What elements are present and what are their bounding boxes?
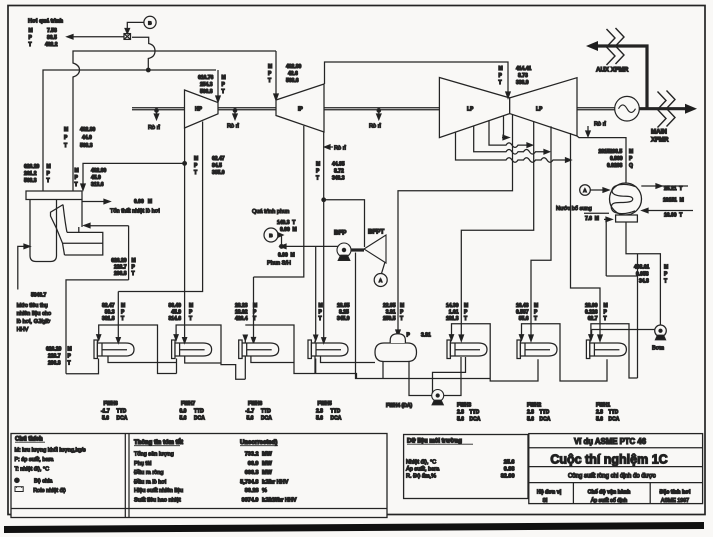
LP exhaust to condenser: [577, 136, 626, 183]
leak Ro ri IP gland: [330, 146, 333, 148]
svg-text:T: T: [194, 170, 197, 176]
svg-text:T: T: [75, 182, 78, 188]
BFP-BFPT shaft: [351, 248, 364, 251]
svg-text:Rò rỉ: Rò rỉ: [334, 145, 347, 152]
node main steam tap: [147, 68, 151, 72]
svg-text:T: T: [64, 143, 67, 149]
svg-text:T: T: [189, 316, 192, 322]
FWH7 shell: [172, 335, 212, 359]
svg-text:M: M: [319, 303, 323, 309]
svg-text:T: T: [47, 178, 50, 184]
FWH3 feed loop: [452, 324, 539, 381]
svg-text:Áp suất cố định: Áp suất cố định: [591, 497, 628, 504]
svg-text:P: P: [268, 71, 272, 77]
boiler downcomer strip: [51, 205, 65, 255]
svg-text:kJ/hr HHV: kJ/hr HHV: [262, 479, 289, 485]
svg-text:ASME 1997: ASME 1997: [661, 498, 689, 504]
svg-text:P: P: [407, 333, 411, 339]
svg-text:T: T: [319, 316, 322, 322]
svg-text:Chú thích: Chú thích: [15, 437, 43, 443]
svg-text:44.95: 44.95: [332, 162, 345, 168]
leak Ro ri HP shaft: [233, 109, 236, 112]
merged extraction to FWH2: [531, 126, 551, 335]
FWH7 drain line: [185, 356, 221, 363]
svg-text:M: M: [121, 303, 125, 309]
BFPT steam supply: [324, 200, 365, 247]
power bus thick lines: [597, 46, 686, 109]
svg-text:25.21 T: 25.21 T: [664, 186, 682, 192]
svg-text:P: P: [464, 310, 468, 316]
svg-text:22.95: 22.95: [383, 303, 396, 309]
svg-text:44.0: 44.0: [82, 135, 92, 141]
svg-text:1.61: 1.61: [449, 310, 459, 316]
node spray tee: [280, 245, 284, 249]
svg-text:8.73: 8.73: [518, 73, 528, 79]
boiler furnace column: [30, 200, 57, 262]
svg-text:T: T: [68, 361, 71, 367]
svg-text:568.6: 568.6: [286, 78, 299, 84]
IP exhaust drop to FWH5: [323, 132, 325, 337]
booster pump outlet: [444, 357, 461, 396]
node BFPT steam tee: [322, 198, 326, 202]
svg-text:Mức tiêu thụ: Mức tiêu thụ: [17, 303, 48, 309]
svg-text:R. Độ ẩm,%: R. Độ ẩm,%: [406, 473, 436, 480]
boiler economizer inner line: [63, 242, 103, 244]
instrument circle B: [144, 16, 156, 28]
boiler flue duct right wall: [81, 200, 83, 228]
svg-text:M: lưu lượng khối lượng,kg/s: M: lưu lượng khối lượng,kg/s: [15, 448, 86, 454]
svg-text:5.6: 5.6: [596, 417, 603, 423]
svg-text:nhiên liệu cho: nhiên liệu cho: [17, 311, 52, 317]
svg-text:BFPT: BFPT: [368, 229, 384, 236]
IP-LP crossover line: [325, 62, 509, 92]
main steam riser: [43, 70, 216, 191]
svg-text:Rò rỉ: Rò rỉ: [369, 123, 382, 130]
svg-text:5.6: 5.6: [316, 416, 323, 422]
svg-text:P: P: [604, 310, 608, 316]
svg-text:P: P: [64, 135, 68, 141]
hot reheat riser with hop: [73, 51, 276, 191]
FWH2 shell: [517, 335, 557, 359]
svg-text:P: áp suất, bara: P: áp suất, bara: [15, 457, 55, 463]
svg-text:Rò rỉ: Rò rỉ: [148, 124, 161, 131]
svg-text:IP: IP: [298, 107, 303, 113]
svg-text:M: M: [629, 149, 633, 155]
svg-text:381.8: 381.8: [102, 316, 115, 322]
svg-text:0.00 M: 0.00 M: [134, 199, 152, 205]
svg-text:DCA: DCA: [261, 416, 272, 422]
svg-text:T: T: [464, 316, 467, 322]
svg-text:482.90: 482.90: [91, 168, 107, 174]
svg-text:T: T: [132, 271, 135, 277]
svg-text:P: P: [400, 310, 404, 316]
shaft segments double line: [132, 108, 615, 110]
instrument line to valve: [127, 22, 144, 28]
FWH1 shell: [586, 335, 626, 359]
arrow from MAIN XFMR: [685, 104, 697, 114]
FWH4 dome: [390, 334, 405, 343]
svg-text:M: M: [64, 127, 68, 133]
svg-text:-1.7: -1.7: [101, 409, 110, 415]
svg-text:LP: LP: [536, 107, 543, 113]
turbine LP left: [439, 78, 509, 138]
svg-text:18.00: 18.00: [585, 303, 598, 309]
svg-text:M: M: [132, 258, 136, 264]
svg-text:3.81: 3.81: [386, 310, 396, 316]
svg-text:Hiệu suất nhiên liệu: Hiệu suất nhiên liệu: [134, 488, 183, 494]
svg-text:254.3: 254.3: [200, 82, 213, 88]
svg-text:2.8: 2.8: [316, 409, 323, 415]
svg-text:-1.7: -1.7: [246, 409, 255, 415]
svg-text:66.9: 66.9: [248, 461, 259, 467]
svg-text:42.6: 42.6: [288, 71, 298, 77]
svg-text:426.4: 426.4: [235, 316, 248, 322]
FWH5 drain line: [321, 356, 376, 363]
merged extraction to FWH3: [461, 121, 533, 335]
svg-text:P: P: [222, 82, 226, 88]
FWH5 channel feed line: [315, 246, 317, 335]
svg-text:Chế độ vận hành: Chế độ vận hành: [588, 488, 631, 495]
svg-text:8.25: 8.25: [339, 310, 349, 316]
condensate pump Bom: [655, 325, 667, 337]
svg-text:T: nhiệt độ, °C: T: nhiệt độ, °C: [15, 467, 50, 473]
BFPT exhaust to A: [382, 262, 386, 274]
svg-text:B: B: [148, 21, 152, 26]
svg-text:Dữ liệu môi trường: Dữ liệu môi trường: [407, 439, 462, 445]
svg-text:7.6 M: 7.6 M: [585, 216, 599, 222]
svg-text:Uncorrected): Uncorrected): [240, 440, 277, 446]
LP extraction drop row D: [456, 132, 566, 162]
FWH8 feed loop: [99, 325, 177, 374]
FWH5 shell: [308, 335, 348, 358]
svg-text:0.226: 0.226: [585, 310, 598, 316]
svg-text:M: M: [47, 164, 51, 170]
transformer AUX XFMR symbol: [607, 28, 625, 65]
svg-text:P: P: [319, 310, 323, 316]
main steam to HP inlet: [217, 70, 219, 96]
svg-text:314.6: 314.6: [168, 316, 181, 322]
feedwater riser to boiler: [128, 226, 130, 280]
svg-text:T: T: [400, 316, 403, 322]
scan band bottom: [4, 522, 704, 533]
svg-text:Suất tiêu hao nhiệt: Suất tiêu hao nhiệt: [134, 497, 181, 503]
FWH3 shell: [447, 335, 487, 359]
svg-text:M: M: [268, 64, 272, 70]
process steam arrow: [73, 36, 124, 38]
svg-text:Đầu ra lò hơi: Đầu ra lò hơi: [134, 479, 166, 485]
svg-text:A: A: [583, 188, 587, 193]
feedwater return arrow into boiler: [90, 225, 129, 227]
svg-text:2.8: 2.8: [457, 410, 464, 416]
svg-text:TTD: TTD: [194, 409, 204, 415]
instrument circle B spray: [264, 228, 278, 242]
svg-text:Thông tin tóm tắt: Thông tin tóm tắt: [134, 439, 183, 446]
turbine BFPT: [364, 235, 386, 263]
svg-text:Q: Q: [629, 163, 633, 169]
svg-text:2.8: 2.8: [527, 410, 534, 416]
svg-text:19151 M: 19151 M: [663, 198, 684, 204]
svg-text:9974.9: 9974.9: [242, 497, 259, 503]
svg-text:Bơm: Bơm: [652, 346, 664, 352]
svg-text:296.8: 296.8: [48, 361, 61, 367]
svg-text:86.28: 86.28: [245, 488, 259, 494]
svg-text:T: T: [29, 42, 32, 48]
FWH6 channel through line: [244, 341, 246, 380]
svg-text:Nhiệt độ, °C: Nhiệt độ, °C: [406, 459, 436, 465]
process steam tap riser with hop: [132, 37, 155, 70]
svg-text:82.47: 82.47: [102, 303, 115, 309]
condensate from hotwell to pump: [626, 222, 660, 325]
svg-text:228.7: 228.7: [48, 354, 61, 360]
svg-text:B: B: [269, 233, 273, 238]
svg-text:P: P: [68, 354, 72, 360]
boiler heat-loss arrow: [82, 201, 104, 203]
table ambient data box: [404, 435, 528, 499]
svg-text:250.5: 250.5: [383, 316, 396, 322]
svg-text:7.58: 7.58: [47, 28, 57, 34]
svg-text:lò hơi, GJ/giờ: lò hơi, GJ/giờ: [17, 319, 51, 325]
svg-text:80.3: 80.3: [105, 310, 115, 316]
svg-text:0.98: 0.98: [504, 467, 515, 473]
svg-text:2.8: 2.8: [596, 410, 603, 416]
pump BFP: [337, 243, 351, 257]
svg-text:62.7: 62.7: [588, 316, 598, 322]
instrument circle A condenser: [580, 185, 591, 196]
svg-text:Tổng sản lượng: Tổng sản lượng: [134, 451, 174, 458]
svg-text:140.3 T: 140.3 T: [277, 220, 295, 226]
svg-text:336.9: 336.9: [516, 80, 529, 86]
merged extraction to FWH1: [571, 133, 601, 335]
svg-text:2815298.5: 2815298.5: [599, 149, 623, 155]
svg-text:P: P: [47, 171, 51, 177]
circulating water inlet: [648, 210, 693, 212]
svg-text:TTD: TTD: [261, 409, 271, 415]
FWH5 channel through line: [314, 341, 316, 374]
svg-text:5.6: 5.6: [457, 417, 464, 423]
svg-text:18.02: 18.02: [235, 310, 248, 316]
svg-text:AUX XFMR: AUX XFMR: [596, 67, 629, 74]
svg-text:T: T: [121, 316, 124, 322]
leak Ro ri IP shaft: [377, 109, 380, 112]
svg-text:16.00 T: 16.00 T: [664, 213, 682, 219]
svg-text:482.80: 482.80: [286, 64, 302, 70]
svg-text:568.3: 568.3: [24, 178, 37, 184]
svg-text:5.6: 5.6: [102, 416, 109, 422]
DA feed riser: [382, 362, 384, 379]
FWH5 channel through line: [316, 359, 357, 379]
svg-text:385.0: 385.0: [212, 170, 225, 176]
svg-text:181.3: 181.3: [446, 316, 459, 322]
svg-text:P: P: [29, 35, 33, 41]
svg-text:5.6: 5.6: [527, 417, 534, 423]
svg-text:313.6: 313.6: [91, 182, 104, 188]
FWH6 shell: [239, 335, 279, 358]
makeup water drop: [605, 219, 607, 276]
svg-text:228.7: 228.7: [114, 265, 127, 271]
svg-text:346.3: 346.3: [332, 176, 345, 182]
svg-text:FWH7: FWH7: [181, 401, 195, 407]
booster pump: [432, 390, 444, 402]
svg-text:P: P: [534, 310, 538, 316]
svg-text:P: P: [629, 156, 633, 162]
svg-text:5.6: 5.6: [247, 416, 254, 422]
table title block: [529, 434, 703, 504]
svg-text:16.43: 16.43: [516, 303, 529, 309]
svg-text:414.41: 414.41: [516, 66, 532, 72]
svg-text:M: M: [316, 162, 320, 168]
FWH3 drain line: [433, 357, 466, 393]
svg-text:P: P: [132, 265, 136, 271]
condensate recirculation line: [606, 275, 637, 277]
svg-text:kJ/kWhr HHV: kJ/kWhr HHV: [262, 497, 297, 503]
svg-text:Bộ chia: Bộ chia: [34, 478, 53, 484]
svg-text:Quá trình phun: Quá trình phun: [252, 209, 289, 215]
svg-text:14.30: 14.30: [446, 303, 459, 309]
DA outlet to booster pump: [409, 362, 432, 396]
svg-text:T: T: [253, 316, 256, 322]
svg-text:DCA: DCA: [331, 416, 342, 422]
svg-text:P: P: [253, 310, 257, 316]
svg-text:0.0: 0.0: [180, 409, 187, 415]
svg-text:P: P: [189, 310, 193, 316]
svg-text:M: M: [664, 265, 668, 271]
FWH8 shell: [94, 335, 134, 359]
svg-text:T: T: [534, 316, 537, 322]
svg-text:M: M: [464, 303, 468, 309]
svg-text:TTD: TTD: [609, 410, 619, 416]
LP extraction drop row C: [474, 126, 544, 155]
svg-text:FWH8: FWH8: [104, 401, 118, 407]
hot reheat into IP: [275, 51, 277, 94]
svg-text:Đặc tính hơi: Đặc tính hơi: [660, 489, 691, 495]
svg-text:FWH6: FWH6: [248, 401, 262, 407]
svg-text:82.00: 82.00: [501, 474, 515, 480]
cold reheat from HP to boiler: [83, 163, 185, 184]
svg-text:XFMR: XFMR: [651, 137, 669, 144]
svg-text:Hơi quá trình: Hơi quá trình: [28, 19, 64, 25]
svg-text:M: M: [75, 168, 79, 174]
svg-text:TTD: TTD: [540, 410, 550, 416]
svg-text:Áp suất, bara: Áp suất, bara: [406, 466, 440, 473]
svg-text:T: T: [316, 176, 319, 182]
svg-text:HHV: HHV: [17, 327, 29, 333]
arrow to AUX XFMR: [586, 41, 598, 51]
HP exhaust to FWH7: [184, 128, 186, 338]
svg-text:Cuộc thí nghiệm 1C: Cuộc thí nghiệm 1C: [550, 453, 667, 467]
svg-text:M: M: [400, 303, 404, 309]
svg-text:492.2: 492.2: [45, 42, 58, 48]
svg-text:Công suất ròng chi định đo đượ: Công suất ròng chi định đo được: [568, 474, 656, 480]
FWH1 drain riser: [637, 254, 639, 378]
SH spray arrow: [286, 245, 338, 247]
svg-text:34.8: 34.8: [639, 279, 649, 285]
svg-text:Phun S/H: Phun S/H: [267, 261, 291, 267]
svg-text:616.76: 616.76: [198, 75, 214, 81]
svg-text:FWH1: FWH1: [596, 403, 610, 409]
svg-text:25.6: 25.6: [504, 459, 515, 465]
svg-text:8.72: 8.72: [334, 169, 344, 175]
boiler steam drum header: [26, 191, 82, 200]
FWH2 feed loop: [522, 324, 608, 381]
svg-text:MW: MW: [262, 452, 273, 458]
leak Ro ri LP gland: [587, 126, 589, 131]
svg-text:626.29: 626.29: [111, 258, 127, 264]
svg-text:86.40: 86.40: [168, 303, 181, 309]
svg-text:18.85: 18.85: [337, 303, 350, 309]
svg-text:261.2: 261.2: [24, 171, 37, 177]
condenser hotwell: [616, 215, 638, 222]
pump discharge to FWH1: [592, 329, 655, 331]
FWH7 channel through line: [176, 359, 178, 374]
svg-text:345.9: 345.9: [337, 316, 350, 322]
turbine HP: [185, 90, 219, 128]
svg-text:M: M: [29, 28, 33, 34]
svg-text:566.8: 566.8: [200, 89, 213, 95]
turbine LP right: [510, 78, 577, 136]
FWH8 drain line: [108, 356, 177, 363]
svg-text:BFP: BFP: [334, 230, 346, 237]
svg-text:Tổn thất nhiệt lò hơi: Tổn thất nhiệt lò hơi: [110, 207, 160, 214]
svg-text:5,734.8: 5,734.8: [240, 479, 258, 485]
svg-text:45.9: 45.9: [171, 310, 181, 316]
svg-text:T: T: [604, 316, 607, 322]
FWH8 feedwater outlet: [66, 359, 99, 374]
svg-text:Phụ tải: Phụ tải: [134, 461, 151, 467]
turbine IP: [276, 84, 324, 132]
svg-text:%: %: [262, 488, 267, 494]
svg-text:TTD: TTD: [470, 410, 480, 416]
FWH7 feed staircase: [176, 325, 245, 379]
svg-text:TTD: TTD: [117, 409, 127, 415]
svg-text:5846.7: 5846.7: [31, 293, 47, 299]
svg-text:666.3: 666.3: [245, 470, 259, 476]
feedwater line lower run: [66, 280, 129, 374]
svg-text:DCA: DCA: [194, 416, 205, 422]
svg-text:MW: MW: [262, 470, 273, 476]
svg-text:P: P: [75, 175, 79, 181]
FWH6 drain line: [251, 356, 294, 363]
svg-text:T: T: [664, 279, 667, 285]
leak Ro ri HP left gland: [155, 109, 158, 112]
FWH6 steam line: [253, 277, 255, 338]
svg-text:M: M: [222, 75, 226, 81]
node cold reheat tee: [183, 162, 187, 166]
svg-text:MAIN: MAIN: [651, 129, 667, 136]
svg-text:85.6: 85.6: [519, 316, 529, 322]
svg-text:M: M: [534, 303, 538, 309]
FWH1 feed loop: [591, 324, 638, 378]
svg-text:Đầu ra ròng: Đầu ra ròng: [134, 470, 164, 476]
svg-text:A: A: [379, 278, 383, 283]
condenser tube coil: [611, 184, 635, 213]
makeup water line: [584, 212, 609, 214]
svg-text:DCA: DCA: [609, 417, 620, 423]
svg-text:0.9208: 0.9208: [607, 163, 623, 169]
svg-text:0.00 M: 0.00 M: [278, 253, 295, 259]
svg-text:733.2: 733.2: [245, 452, 259, 458]
svg-text:DCA: DCA: [470, 417, 481, 423]
generator G1: [615, 96, 640, 121]
LP extraction drop row B: [489, 120, 527, 147]
svg-text:T: T: [222, 89, 225, 95]
svg-text:482.80: 482.80: [80, 127, 96, 133]
fuel input arrow: [18, 246, 24, 289]
condenser shell: [610, 183, 642, 215]
svg-text:P: P: [499, 73, 503, 79]
svg-text:45.9: 45.9: [91, 175, 101, 181]
svg-text:T: T: [268, 78, 271, 84]
svg-text:FWH2: FWH2: [527, 403, 541, 409]
